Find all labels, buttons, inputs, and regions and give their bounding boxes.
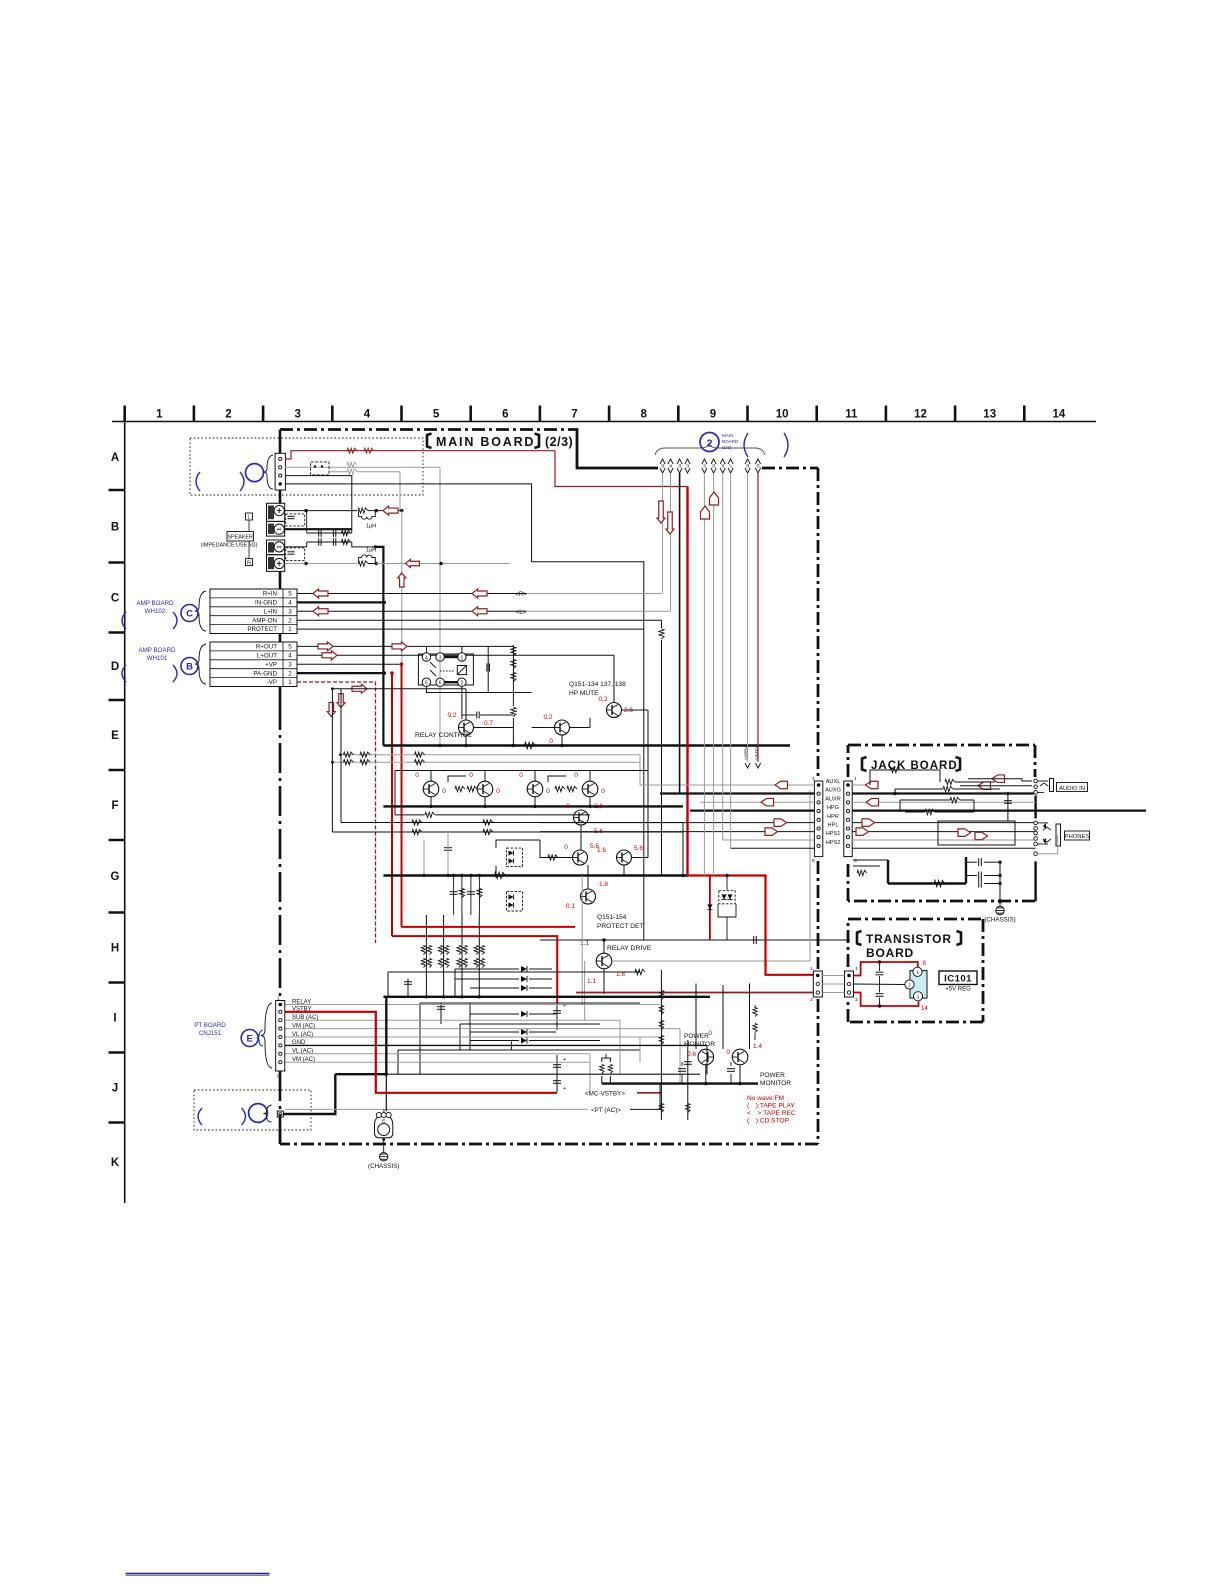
svg-text:4: 4 xyxy=(364,409,371,421)
svg-text:3: 3 xyxy=(294,409,300,421)
svg-text:2: 2 xyxy=(461,681,464,687)
svg-text:4: 4 xyxy=(288,600,292,607)
svg-text:4: 4 xyxy=(425,655,428,661)
svg-text:< >:TAPE REC: < >:TAPE REC xyxy=(747,1110,796,1117)
svg-text:0: 0 xyxy=(442,788,446,795)
svg-text:1: 1 xyxy=(810,966,813,972)
svg-text:IN-GND: IN-GND xyxy=(255,600,278,607)
svg-text:12: 12 xyxy=(914,409,927,421)
svg-text:(CHASSIS): (CHASSIS) xyxy=(368,1163,399,1170)
svg-text:R+IN: R+IN xyxy=(263,591,277,598)
svg-text:F: F xyxy=(111,800,118,812)
svg-text:G: G xyxy=(111,871,120,883)
svg-text:SPEAKER: SPEAKER xyxy=(227,535,253,541)
svg-text:4: 4 xyxy=(288,653,292,660)
svg-text:1: 1 xyxy=(288,679,292,686)
svg-text:RELAY CONTROL: RELAY CONTROL xyxy=(415,732,472,739)
svg-text:1: 1 xyxy=(855,966,858,972)
svg-text:(CHASSIS): (CHASSIS) xyxy=(984,917,1015,924)
svg-text:+5V REG: +5V REG xyxy=(945,987,971,993)
svg-text:MAIN: MAIN xyxy=(722,433,733,438)
svg-text:POWER: POWER xyxy=(760,1072,785,1079)
svg-text:8: 8 xyxy=(812,858,815,864)
svg-text:2: 2 xyxy=(707,438,713,450)
svg-text:0: 0 xyxy=(549,738,553,745)
svg-text:MONITOR: MONITOR xyxy=(760,1080,791,1087)
svg-text:1: 1 xyxy=(854,776,857,782)
svg-text:E: E xyxy=(111,730,119,742)
svg-text:0: 0 xyxy=(726,1049,730,1056)
svg-text:12: 12 xyxy=(686,464,690,468)
svg-text:L+OUT: L+OUT xyxy=(257,653,277,660)
svg-text:19: 19 xyxy=(756,464,760,468)
svg-text:3: 3 xyxy=(855,997,858,1003)
svg-text:<L>: <L> xyxy=(516,609,527,616)
svg-text:HPS2: HPS2 xyxy=(826,840,841,846)
svg-text:0: 0 xyxy=(496,788,500,795)
svg-text:15: 15 xyxy=(712,464,716,468)
svg-text:0: 0 xyxy=(566,803,570,810)
svg-text:CNJ151: CNJ151 xyxy=(199,1030,222,1037)
svg-text:11: 11 xyxy=(669,464,673,468)
svg-text:C: C xyxy=(111,593,119,605)
svg-text:0: 0 xyxy=(601,788,605,795)
svg-text:1μH: 1μH xyxy=(366,524,376,530)
svg-text:14: 14 xyxy=(1053,409,1066,421)
svg-text:1.6: 1.6 xyxy=(597,847,606,854)
svg-text:3: 3 xyxy=(288,608,292,615)
svg-text:AUXR: AUXR xyxy=(825,796,841,802)
svg-text:SUB (AC): SUB (AC) xyxy=(292,1015,318,1021)
svg-text:IC101: IC101 xyxy=(944,974,972,985)
svg-text:J: J xyxy=(112,1083,118,1095)
svg-text:8: 8 xyxy=(640,409,647,421)
svg-text:R+OUT: R+OUT xyxy=(256,644,277,651)
svg-text:H: H xyxy=(111,943,119,955)
svg-text:L: L xyxy=(248,515,251,521)
svg-text:1: 1 xyxy=(461,655,464,661)
svg-text:<PT (AC)>: <PT (AC)> xyxy=(591,1107,621,1114)
svg-text:E: E xyxy=(247,1034,253,1045)
svg-text:WH102: WH102 xyxy=(145,608,166,615)
svg-text:D: D xyxy=(111,661,119,673)
svg-text:VSTBY: VSTBY xyxy=(292,1007,312,1013)
svg-text:<AUX>: <AUX> xyxy=(754,746,759,760)
svg-text:17: 17 xyxy=(729,464,733,468)
svg-text:AMP-ON: AMP-ON xyxy=(252,617,277,624)
svg-text:1: 1 xyxy=(156,409,163,421)
svg-text:2: 2 xyxy=(288,617,292,624)
svg-text:VM (AC): VM (AC) xyxy=(292,1023,315,1029)
svg-text:MONITOR: MONITOR xyxy=(684,1041,715,1048)
svg-text:13: 13 xyxy=(678,464,682,468)
svg-text:3: 3 xyxy=(810,997,813,1003)
svg-text:BOARD: BOARD xyxy=(722,439,739,444)
svg-text:(IMPEDANCE:USE 6Ω): (IMPEDANCE:USE 6Ω) xyxy=(201,543,258,549)
svg-text:R: R xyxy=(247,560,251,566)
svg-text:13: 13 xyxy=(983,409,996,421)
svg-text:5.6: 5.6 xyxy=(634,845,643,852)
svg-text:(2/3): (2/3) xyxy=(545,435,573,449)
svg-text:1.4: 1.4 xyxy=(753,1043,762,1050)
svg-text:K: K xyxy=(111,1157,120,1169)
svg-text:WH101: WH101 xyxy=(147,655,168,662)
svg-text:0: 0 xyxy=(469,772,473,779)
svg-text:+: + xyxy=(563,1086,566,1092)
svg-text:+: + xyxy=(563,1003,566,1009)
svg-text:10: 10 xyxy=(661,464,665,468)
svg-text:10: 10 xyxy=(776,409,789,421)
svg-text:1: 1 xyxy=(277,996,280,1002)
svg-text:C: C xyxy=(186,609,193,620)
svg-text:AUDIO IN: AUDIO IN xyxy=(1059,786,1085,792)
svg-text:0: 0 xyxy=(415,772,419,779)
svg-text:(1/3): (1/3) xyxy=(722,445,732,450)
svg-text:5: 5 xyxy=(433,409,440,421)
svg-text:VL (AC): VL (AC) xyxy=(292,1049,313,1055)
svg-text:<MC-VSTBY>: <MC-VSTBY> xyxy=(585,1091,625,1098)
svg-text:Q151-154: Q151-154 xyxy=(597,914,627,921)
svg-text:+VP: +VP xyxy=(265,661,277,668)
svg-text:BOARD: BOARD xyxy=(866,946,914,960)
svg-text:5: 5 xyxy=(288,591,292,598)
svg-text:5: 5 xyxy=(425,681,428,687)
svg-text:B: B xyxy=(111,522,119,534)
svg-text:2: 2 xyxy=(225,409,231,421)
svg-text:-VP: -VP xyxy=(267,679,277,686)
svg-text:( ):CD STOP: ( ):CD STOP xyxy=(747,1118,790,1125)
svg-text:PHONES: PHONES xyxy=(1065,834,1090,840)
svg-text:AUXL: AUXL xyxy=(826,779,841,785)
svg-text:MAIN BOARD: MAIN BOARD xyxy=(436,435,535,449)
svg-text:<HPR>: <HPR> xyxy=(744,746,749,760)
svg-text:0.6: 0.6 xyxy=(687,1051,696,1058)
svg-text:11: 11 xyxy=(845,409,858,421)
svg-text:1.8: 1.8 xyxy=(599,881,608,888)
svg-text:PROTECT DET: PROTECT DET xyxy=(597,923,643,930)
svg-text:8: 8 xyxy=(277,1074,280,1080)
svg-text:TRANSISTOR: TRANSISTOR xyxy=(866,932,952,946)
svg-text:5: 5 xyxy=(288,644,292,651)
svg-text:<R>: <R> xyxy=(515,591,527,598)
svg-text:HP MUTE: HP MUTE xyxy=(569,690,599,697)
svg-text:16: 16 xyxy=(721,464,725,468)
svg-text:6: 6 xyxy=(502,409,508,421)
svg-text:HPS1: HPS1 xyxy=(826,831,841,837)
svg-text:9: 9 xyxy=(710,409,716,421)
svg-text:1.1: 1.1 xyxy=(587,978,596,985)
svg-text:1: 1 xyxy=(288,626,292,633)
svg-text:7: 7 xyxy=(571,409,577,421)
svg-text:VL (AC): VL (AC) xyxy=(292,1032,313,1038)
svg-text:RELAY: RELAY xyxy=(292,999,311,1005)
svg-text:6: 6 xyxy=(439,681,442,687)
svg-text:VM (AC): VM (AC) xyxy=(292,1057,315,1063)
svg-text:PA-GND: PA-GND xyxy=(253,670,277,677)
svg-text:14: 14 xyxy=(703,464,707,468)
svg-text:PROTECT: PROTECT xyxy=(247,626,277,633)
svg-text:0.7: 0.7 xyxy=(484,720,493,727)
svg-text:PT BOARD: PT BOARD xyxy=(194,1022,226,1029)
svg-text:I: I xyxy=(113,1013,116,1025)
svg-text:1μH: 1μH xyxy=(366,548,376,554)
svg-text:AUXG: AUXG xyxy=(825,788,841,794)
svg-text:18: 18 xyxy=(746,464,750,468)
svg-text:A: A xyxy=(111,452,119,464)
svg-text:AMP BOARD: AMP BOARD xyxy=(136,600,174,607)
svg-text:( ):TAPE PLAY: ( ):TAPE PLAY xyxy=(747,1103,795,1110)
svg-text:HPL: HPL xyxy=(828,823,839,829)
svg-text:HPG: HPG xyxy=(827,805,839,811)
svg-text:0.2: 0.2 xyxy=(598,696,607,703)
svg-text:No wave:FM: No wave:FM xyxy=(747,1095,784,1102)
svg-text:2.6: 2.6 xyxy=(594,803,603,810)
svg-text:POWER: POWER xyxy=(684,1033,709,1040)
svg-text:8: 8 xyxy=(854,858,857,864)
svg-text:3: 3 xyxy=(439,655,442,661)
svg-text:1.1: 1.1 xyxy=(580,940,589,947)
svg-text:RELAY DRIVE: RELAY DRIVE xyxy=(607,945,652,952)
svg-text:0: 0 xyxy=(574,772,578,779)
svg-text:0: 0 xyxy=(708,1030,712,1037)
svg-text:B: B xyxy=(186,662,193,673)
svg-text:14: 14 xyxy=(921,1006,928,1012)
svg-text:0.2: 0.2 xyxy=(447,712,456,719)
svg-text:0.2: 0.2 xyxy=(543,714,552,721)
svg-text:2: 2 xyxy=(288,670,292,677)
svg-text:1: 1 xyxy=(812,776,815,782)
svg-text:0: 0 xyxy=(519,772,523,779)
svg-text:0.1: 0.1 xyxy=(566,903,575,910)
svg-text:AMP BOARD: AMP BOARD xyxy=(138,647,176,654)
svg-text:L+IN: L+IN xyxy=(264,608,277,615)
svg-text:0: 0 xyxy=(564,844,568,851)
svg-text:HPR: HPR xyxy=(827,814,839,820)
svg-text:Q151-134 137, 138: Q151-134 137, 138 xyxy=(569,681,626,688)
svg-text:0: 0 xyxy=(546,788,550,795)
svg-text:3: 3 xyxy=(288,661,292,668)
